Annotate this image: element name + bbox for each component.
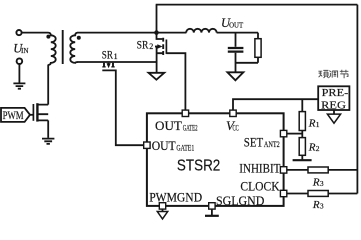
svg-text:IN: IN [21, 46, 29, 55]
wire inductor to load [217, 32, 258, 34]
svg-text:1: 1 [316, 120, 320, 129]
transformer T1 secondary [70, 33, 78, 63]
resistor R3b [308, 191, 328, 197]
ground SR2 [149, 73, 165, 80]
wire right rail [356, 5, 358, 194]
wire CLOCK pin [287, 193, 308, 195]
transistor Q1 leads [38, 105, 48, 121]
svg-text:2: 2 [149, 42, 153, 51]
transistor SR1 body arrow [108, 63, 110, 64]
ground output [227, 72, 243, 80]
svg-text:CC: CC [233, 123, 239, 132]
ground R2 [301, 155, 303, 159]
wire secondary bottom [78, 61, 157, 63]
svg-text:R: R [308, 142, 316, 154]
svg-text:SR: SR [137, 40, 149, 52]
svg-text:OUT: OUT [152, 138, 176, 153]
wire INHIBIT pin [287, 169, 308, 171]
ground PWMGND [162, 209, 164, 211]
wire R3a to rail [328, 169, 357, 171]
svg-text:PWM: PWM [3, 110, 24, 122]
svg-text:SGLGND: SGLGND [216, 194, 264, 208]
wire primary bottom to Q1 drain [47, 65, 49, 105]
pin PWMGND [159, 203, 165, 209]
svg-text:1: 1 [114, 52, 118, 61]
svg-text:OUT: OUT [155, 118, 182, 133]
transistor SR1 gate plate and lead to OUTGATE1 [102, 70, 143, 145]
wire VCC up and right [233, 99, 318, 110]
label 预调节 (hand-drawn strokes) [318, 70, 348, 78]
inductor L1 [186, 29, 216, 33]
transformer T1 primary [48, 33, 56, 65]
wire SET pin [287, 133, 303, 135]
pin SGLGND [209, 203, 215, 209]
svg-text:STSR2: STSR2 [177, 158, 220, 175]
ground [13, 83, 25, 88]
wire [22, 32, 48, 34]
pin CLOCK [280, 190, 286, 196]
capacitor C1 plates [228, 48, 244, 52]
pin SETANT2 [280, 130, 286, 136]
svg-text:R: R [312, 199, 320, 211]
svg-text:R: R [308, 117, 316, 129]
transistor Q1 channel [36, 103, 38, 121]
char 节 [340, 70, 349, 78]
svg-text:3: 3 [320, 202, 324, 211]
svg-text:OUT: OUT [229, 21, 244, 29]
transistor SR2 gate plate [165, 40, 167, 54]
wire secondary top rail [78, 32, 187, 34]
IC U1 STSR2 box [147, 113, 284, 206]
char 调 [329, 71, 337, 78]
capacitor C1 top lead [235, 33, 237, 47]
resistor R2 [299, 138, 305, 156]
transformer core [62, 30, 64, 64]
input terminal bottom [17, 58, 23, 64]
char 预 [318, 70, 328, 78]
resistor Rload [257, 33, 259, 63]
pin OUTGATE1 [144, 142, 150, 148]
primary polarity dot [46, 35, 50, 39]
svg-text:PWMGND: PWMGND [149, 191, 202, 205]
svg-text:ANT2: ANT2 [264, 140, 280, 149]
PRE-REG block [318, 86, 349, 110]
ground Q1 [42, 139, 54, 144]
transistor SR1 contacts [104, 63, 113, 67]
transistor SR2 gate lead to OUTGATE2 [166, 53, 185, 110]
wire top rail [156, 4, 358, 6]
wire R1 R2 junction [301, 131, 303, 138]
capacitor C1 bottom lead [235, 53, 237, 72]
ground PRE-REG [333, 110, 335, 114]
secondary polarity dot [77, 36, 81, 40]
transistor SR2 source lead [157, 46, 163, 73]
wire node A up to top rail [156, 5, 158, 33]
wire C1 to Rload bottom [236, 62, 259, 64]
pin INHIBIT [280, 167, 286, 173]
input terminal top [16, 30, 21, 35]
svg-text:GATE1: GATE1 [176, 144, 194, 153]
resistor R3a [308, 167, 328, 173]
svg-text:SR: SR [102, 50, 113, 62]
ground SGLGND [211, 209, 213, 215]
resistor R1 [299, 112, 305, 131]
transistor SR2 channel [162, 38, 164, 55]
svg-text:R: R [312, 177, 320, 189]
junction node A [154, 30, 159, 35]
svg-text:SET: SET [244, 135, 264, 149]
svg-text:2: 2 [316, 144, 320, 153]
transistor SR2 body arrow [155, 46, 159, 48]
svg-text:REG: REG [321, 99, 346, 111]
pin OUTGATE2 [182, 110, 188, 116]
svg-text:CLOCK: CLOCK [240, 179, 279, 193]
wire [18, 64, 20, 82]
svg-text:PRE-: PRE- [322, 87, 349, 99]
transistor Q1 gate plate [32, 104, 34, 121]
svg-text:GATE2: GATE2 [183, 124, 198, 133]
PWM input tag [1, 108, 30, 122]
transistor SR2 drain lead [157, 33, 163, 39]
wire Q1 source down [47, 120, 49, 137]
wire R1 stub [301, 99, 303, 111]
wire PWM to gate [30, 114, 33, 116]
svg-text:INHIBIT: INHIBIT [239, 162, 280, 176]
pin VCC [230, 110, 236, 116]
wire R3b to rail [328, 193, 357, 195]
svg-text:3: 3 [320, 179, 324, 188]
